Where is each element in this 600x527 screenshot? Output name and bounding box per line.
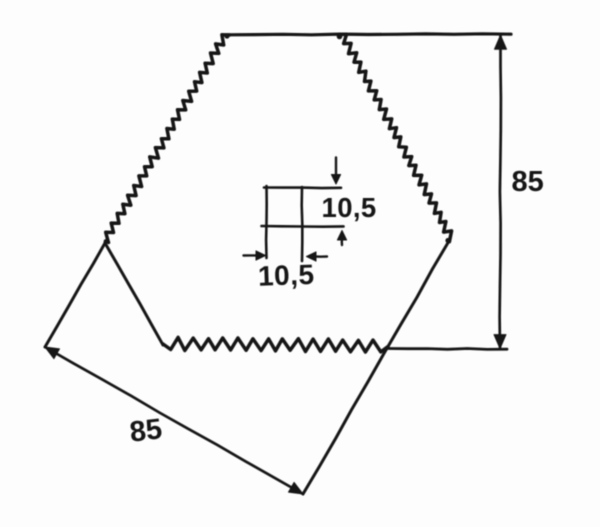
svg-text:10,5: 10,5 <box>257 259 315 292</box>
svg-text:10,5: 10,5 <box>322 192 377 223</box>
svg-text:85: 85 <box>512 166 544 198</box>
svg-text:85: 85 <box>128 413 164 449</box>
